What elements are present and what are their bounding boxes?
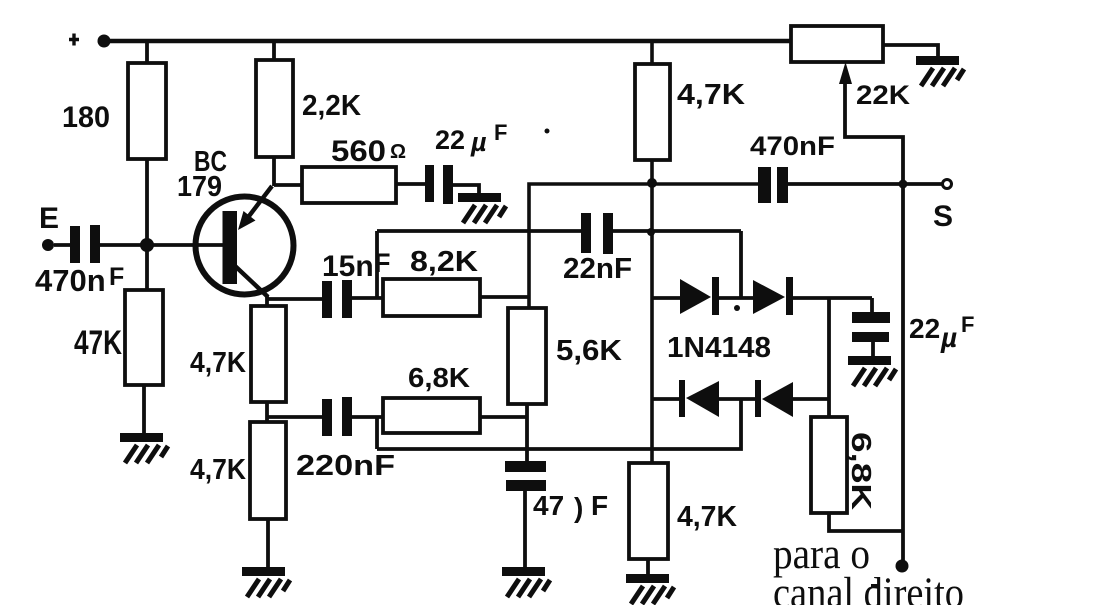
svg-text:47: 47 <box>533 490 564 521</box>
svg-text:22nF: 22nF <box>563 253 632 285</box>
svg-text:179: 179 <box>177 171 222 203</box>
svg-text:5,6K: 5,6K <box>556 335 622 367</box>
svg-text:F: F <box>109 263 124 291</box>
svg-text:F: F <box>961 312 974 337</box>
svg-text:F: F <box>494 120 507 145</box>
svg-text:47K: 47K <box>74 324 122 362</box>
svg-text:F: F <box>374 248 391 278</box>
svg-text:180: 180 <box>62 101 110 134</box>
svg-text:4,7K: 4,7K <box>677 79 745 111</box>
svg-text:470n: 470n <box>35 263 106 298</box>
svg-text:4,7K: 4,7K <box>190 454 246 486</box>
svg-text:1N4148: 1N4148 <box>667 332 771 364</box>
svg-text:2,2K: 2,2K <box>302 90 361 122</box>
svg-text:8,2K: 8,2K <box>410 246 478 278</box>
svg-text:Ω: Ω <box>390 141 406 163</box>
svg-text:470nF: 470nF <box>750 131 835 161</box>
svg-text:4,7K: 4,7K <box>677 501 737 533</box>
svg-text:6,8K: 6,8K <box>408 362 470 393</box>
svg-text:15n: 15n <box>322 250 374 283</box>
svg-text:560: 560 <box>331 135 386 168</box>
svg-text:µ: µ <box>940 322 957 353</box>
svg-text:F: F <box>591 490 608 521</box>
svg-text:4,7K: 4,7K <box>190 347 246 379</box>
svg-text:22: 22 <box>909 313 940 344</box>
svg-text:22K: 22K <box>856 80 911 110</box>
svg-text:220nF: 220nF <box>296 450 395 482</box>
svg-text:22: 22 <box>435 125 465 155</box>
svg-text:µ: µ <box>470 127 487 157</box>
svg-text:): ) <box>574 492 583 523</box>
svg-text:6,8K: 6,8K <box>846 432 877 510</box>
svg-text:E: E <box>39 202 59 235</box>
svg-text:S: S <box>933 200 953 233</box>
svg-text:canal direito: canal direito <box>773 570 964 605</box>
